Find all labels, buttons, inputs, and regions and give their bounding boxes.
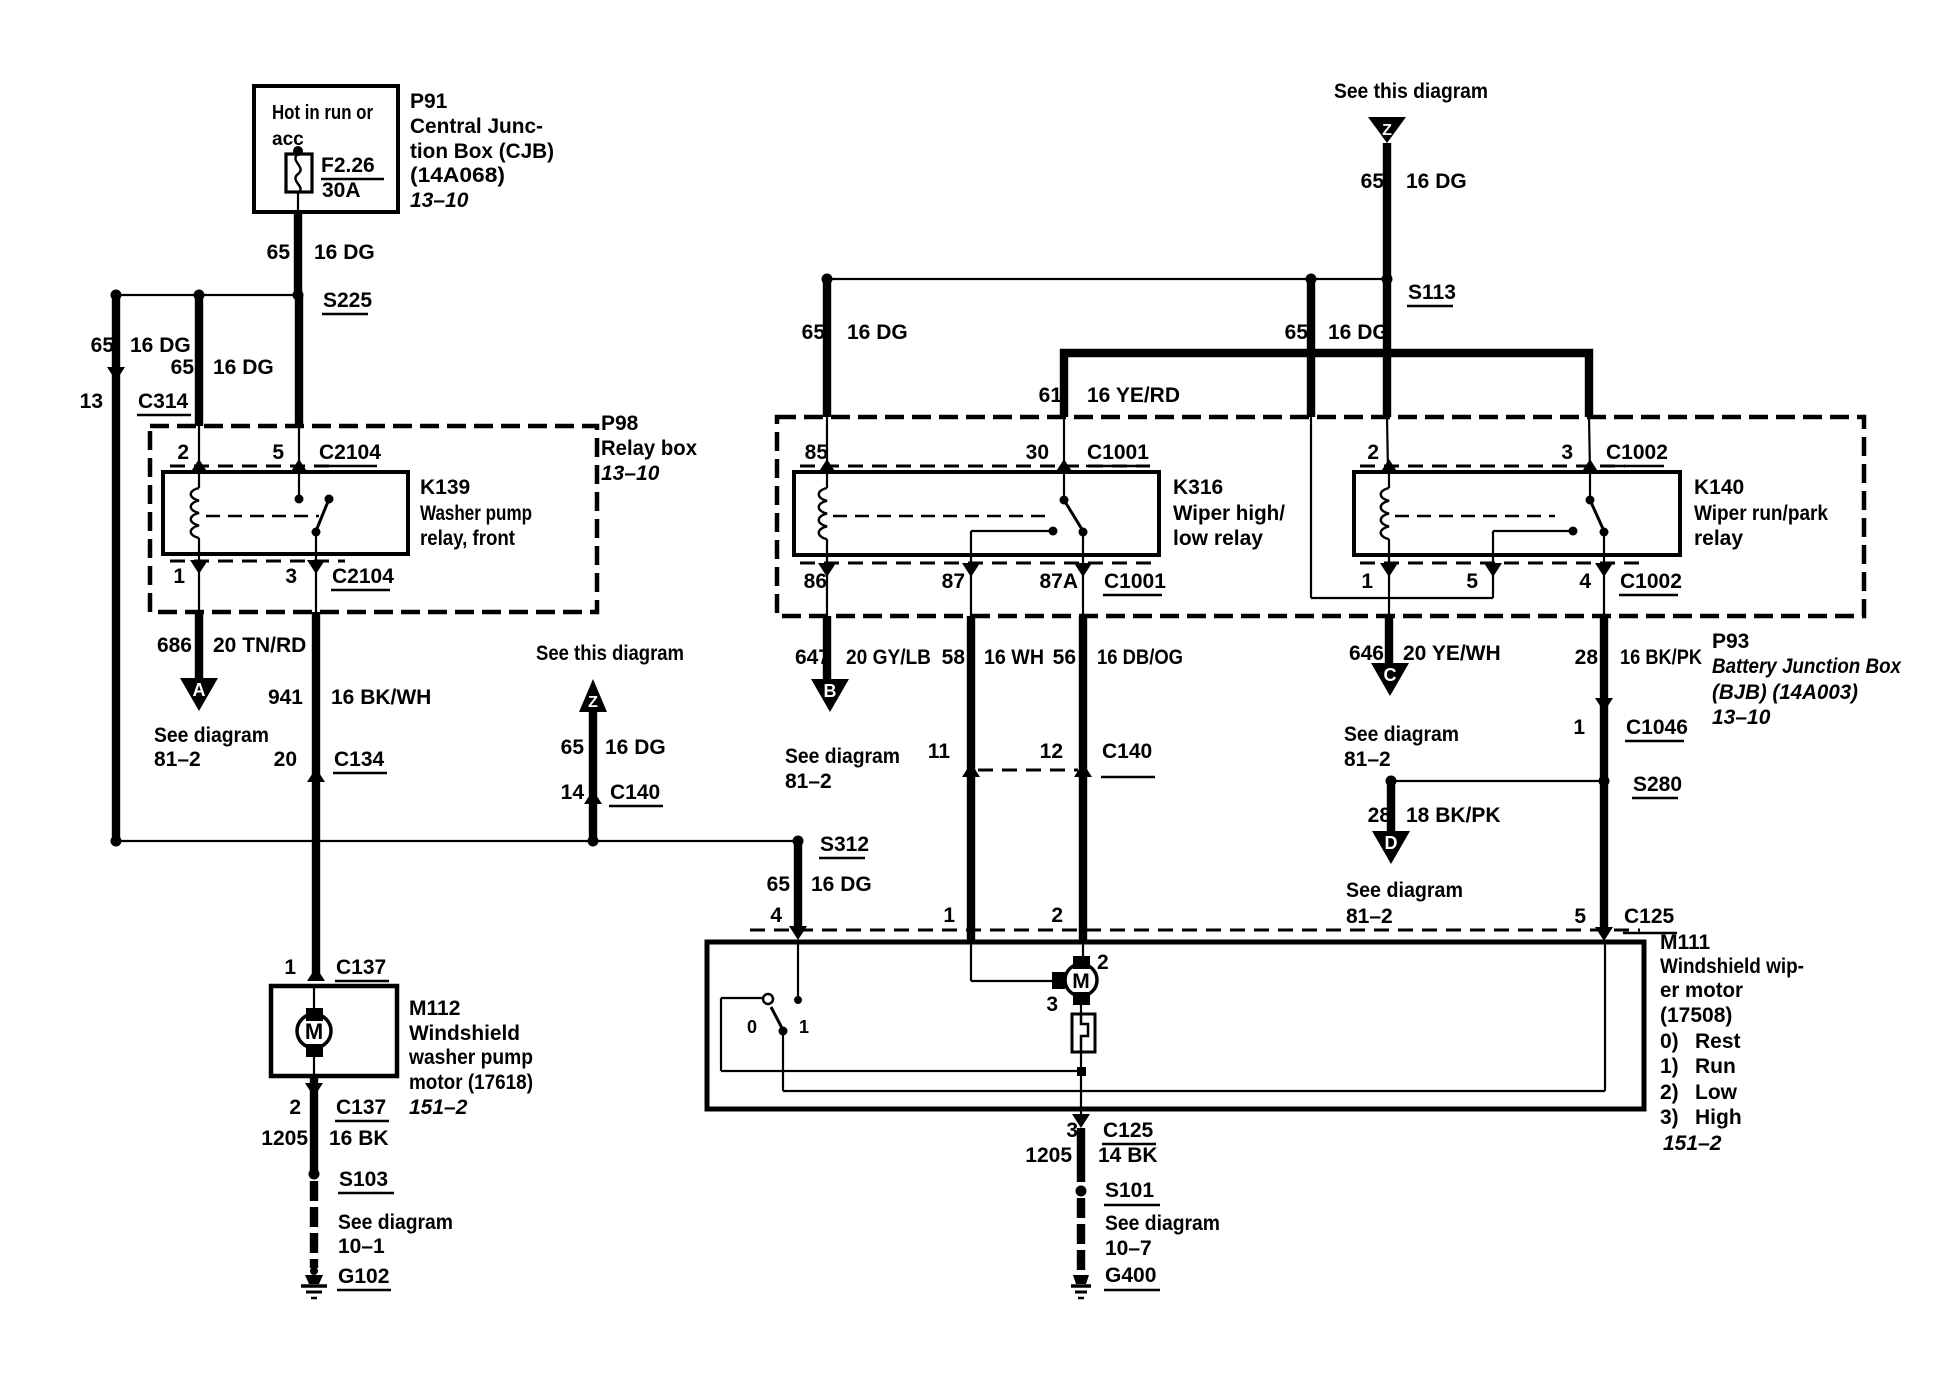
svg-text:28: 28 bbox=[1575, 646, 1599, 669]
svg-text:81–2: 81–2 bbox=[1344, 748, 1391, 771]
svg-text:647: 647 bbox=[795, 646, 830, 669]
svg-text:81–2: 81–2 bbox=[1346, 905, 1393, 928]
svg-text:1: 1 bbox=[943, 904, 955, 927]
svg-text:65: 65 bbox=[802, 321, 826, 344]
svg-text:1: 1 bbox=[284, 956, 296, 979]
wire pin4 inside M111 bbox=[794, 944, 802, 1004]
svg-text:85: 85 bbox=[805, 441, 829, 464]
wire run feed (line B) bbox=[783, 944, 1605, 1091]
park switch arm bbox=[771, 1007, 788, 1036]
svg-text:See this diagram: See this diagram bbox=[1334, 80, 1488, 103]
off-page arrow B bbox=[811, 679, 849, 712]
svg-text:relay: relay bbox=[1694, 527, 1743, 550]
label See diagram 81-2 (B) bbox=[785, 745, 900, 793]
svg-text:2: 2 bbox=[1097, 951, 1109, 974]
node S312 bbox=[793, 833, 870, 858]
svg-text:10–1: 10–1 bbox=[338, 1235, 385, 1258]
svg-text:16 DG: 16 DG bbox=[130, 334, 191, 357]
svg-text:16 WH: 16 WH bbox=[984, 646, 1044, 669]
relay K140 switch arm bbox=[1590, 500, 1609, 555]
svg-text:S225: S225 bbox=[323, 289, 372, 312]
relay K316 coil bbox=[819, 472, 827, 555]
label 13 C314 bbox=[80, 390, 191, 415]
svg-text:S312: S312 bbox=[820, 833, 869, 856]
relay K139 internal dashed link bbox=[206, 515, 319, 518]
svg-text:13: 13 bbox=[80, 390, 103, 413]
svg-text:A: A bbox=[193, 680, 206, 700]
pin 4 arrow C1002 bbox=[1595, 563, 1613, 577]
label 3 C125 bottom bbox=[1066, 1119, 1156, 1144]
svg-text:65: 65 bbox=[171, 356, 195, 379]
wire 65 16 DG fuse to S225 bbox=[294, 212, 302, 295]
wire pin4 inside P93 bbox=[1603, 555, 1605, 616]
label 2 C137 bottom bbox=[289, 1096, 389, 1121]
label 2 3 C1002 bbox=[1367, 441, 1668, 466]
label 65 16 DG (fuse wire) bbox=[267, 241, 375, 264]
wire motor to pin3 bbox=[1080, 1052, 1082, 1109]
svg-text:16 DB/OG: 16 DB/OG bbox=[1097, 646, 1183, 669]
node S280 bbox=[1386, 773, 1683, 798]
svg-text:M: M bbox=[1072, 970, 1090, 993]
wire 16 DG S225 to K139 pin5 bbox=[295, 295, 303, 472]
fuse F2.26 30A bbox=[286, 146, 312, 212]
off-page arrow D bbox=[1372, 831, 1410, 864]
label 85 30 C1001 bbox=[805, 441, 1150, 466]
ground G400 bbox=[1071, 1264, 1160, 1298]
off-page arrow Z down bbox=[1368, 117, 1406, 143]
label 1 C1046 bbox=[1573, 716, 1688, 741]
node S103 bbox=[309, 1168, 395, 1193]
svg-text:S113: S113 bbox=[1408, 281, 1456, 304]
svg-text:81–2: 81–2 bbox=[785, 770, 832, 793]
connector C1002 bottom dashed line bbox=[1360, 562, 1640, 565]
svg-text:Windshield wip-: Windshield wip- bbox=[1660, 955, 1804, 978]
junction dot left bbox=[111, 290, 122, 301]
relay K140 coil bbox=[1381, 472, 1389, 555]
svg-text:Battery Junction Box: Battery Junction Box bbox=[1712, 655, 1902, 678]
wire 646 20 YE/WH bbox=[1385, 616, 1393, 663]
junction dot mid bbox=[194, 290, 205, 301]
label 1 C137 top bbox=[284, 956, 389, 981]
label 20 C134 bbox=[274, 748, 387, 773]
label K139 block bbox=[420, 476, 532, 550]
label 11 12 C140 bbox=[928, 740, 1155, 777]
svg-text:Central Junc-: Central Junc- bbox=[410, 115, 543, 138]
wire pin3 inside P98 bbox=[315, 554, 317, 612]
off-page arrow Z up bbox=[579, 679, 607, 712]
connector C137 pin2 arrow bbox=[305, 1083, 323, 1097]
svg-text:646: 646 bbox=[1349, 642, 1384, 665]
relay K140 internal dashed link bbox=[1395, 515, 1555, 518]
svg-text:3: 3 bbox=[1066, 1119, 1078, 1142]
svg-text:S103: S103 bbox=[339, 1168, 388, 1191]
svg-text:C: C bbox=[1384, 665, 1397, 685]
svg-text:4: 4 bbox=[1579, 570, 1591, 593]
wire pin1 inside P98 bbox=[198, 554, 200, 612]
svg-text:28: 28 bbox=[1368, 804, 1392, 827]
wire pin1 inside P93 bbox=[1388, 555, 1390, 616]
label 56 16 DB/OG bbox=[1053, 646, 1183, 669]
svg-text:See diagram: See diagram bbox=[1344, 723, 1459, 746]
relay K139 coil bbox=[191, 472, 199, 554]
svg-text:C125: C125 bbox=[1103, 1119, 1154, 1142]
svg-text:C1001: C1001 bbox=[1087, 441, 1149, 464]
svg-text:Washer pump: Washer pump bbox=[420, 502, 532, 525]
svg-text:Relay box: Relay box bbox=[601, 437, 697, 460]
wire bus to S312 bbox=[116, 840, 798, 842]
svg-text:Z: Z bbox=[588, 694, 598, 711]
label P91 block bbox=[410, 90, 554, 212]
label 65 16 DG (left) bbox=[91, 334, 191, 357]
connector C125 dashed line bbox=[750, 929, 1640, 932]
svg-text:Run: Run bbox=[1695, 1055, 1736, 1078]
svg-text:1: 1 bbox=[1361, 570, 1373, 593]
junction square bbox=[1077, 1067, 1086, 1076]
connector C125 pin3 arrow bbox=[1072, 1109, 1090, 1128]
wire 65 16 DG left branch bbox=[112, 295, 120, 841]
wire 1205 16 BK bbox=[310, 1076, 318, 1174]
label 65 16 DG (loop wire) bbox=[1285, 321, 1389, 344]
wire splice bus S225 bbox=[116, 294, 298, 296]
relay K316 contact 87 bbox=[971, 527, 1058, 556]
svg-text:16 BK: 16 BK bbox=[329, 1127, 389, 1150]
pin 85 arrow bbox=[818, 459, 836, 473]
svg-text:C2104: C2104 bbox=[319, 441, 381, 464]
wire splice bus S113 bbox=[827, 278, 1387, 280]
svg-text:C1001: C1001 bbox=[1104, 570, 1166, 593]
svg-text:65: 65 bbox=[267, 241, 291, 264]
svg-text:C1002: C1002 bbox=[1620, 570, 1682, 593]
svg-text:65: 65 bbox=[1361, 170, 1385, 193]
svg-text:C2104: C2104 bbox=[332, 565, 394, 588]
pin 11 arrow C140 bbox=[962, 763, 980, 777]
svg-text:2: 2 bbox=[1367, 441, 1379, 464]
motor M111 symbol bbox=[1052, 956, 1097, 1005]
label See diagram 10-7 bbox=[1105, 1212, 1220, 1260]
svg-text:G102: G102 bbox=[338, 1265, 389, 1288]
svg-text:13–10: 13–10 bbox=[601, 462, 660, 485]
wire 65 16 DG from Z top bbox=[1387, 143, 1388, 472]
connector C314 arrow bbox=[107, 367, 125, 381]
label M112 block bbox=[408, 997, 533, 1119]
svg-text:C140: C140 bbox=[1102, 740, 1152, 763]
label 14 C140 bbox=[561, 781, 663, 806]
svg-text:(14A068): (14A068) bbox=[410, 164, 505, 187]
pin 12 arrow C140 bbox=[1074, 763, 1092, 777]
svg-text:(17508): (17508) bbox=[1660, 1004, 1732, 1027]
svg-text:1205: 1205 bbox=[261, 1127, 308, 1150]
svg-text:er motor: er motor bbox=[1660, 979, 1743, 1002]
svg-text:P98: P98 bbox=[601, 412, 639, 435]
junction dot left end bbox=[111, 836, 122, 847]
pin 5 arrow C2104 bbox=[290, 459, 308, 473]
svg-text:M111: M111 bbox=[1660, 931, 1711, 954]
connector C1001 bottom dashed line bbox=[800, 562, 1160, 565]
svg-text:C140: C140 bbox=[610, 781, 660, 804]
svg-text:(BJB) (14A003): (BJB) (14A003) bbox=[1712, 681, 1858, 704]
component box M112 bbox=[271, 986, 397, 1076]
label 61 16 YE/RD bbox=[1039, 384, 1180, 407]
svg-text:14 BK: 14 BK bbox=[1098, 1144, 1158, 1167]
wire 647 20 GY/LB bbox=[823, 616, 831, 679]
svg-text:0: 0 bbox=[747, 1017, 757, 1037]
label See diagram 81-2 (C) bbox=[1344, 723, 1459, 771]
wire 65 16 DG run/park loop bbox=[1311, 279, 1493, 598]
wire 65 16 DG from Z bbox=[589, 712, 597, 841]
wire 87 inside P93 bbox=[970, 555, 972, 616]
node S101 bbox=[1076, 1179, 1161, 1205]
svg-text:F2.26: F2.26 bbox=[321, 154, 375, 177]
svg-text:M: M bbox=[305, 1019, 323, 1044]
svg-text:G400: G400 bbox=[1105, 1264, 1156, 1287]
svg-text:20 GY/LB: 20 GY/LB bbox=[846, 646, 931, 669]
svg-text:Z: Z bbox=[1382, 122, 1392, 139]
label 65 16 DG (K139 branch) bbox=[171, 356, 274, 379]
label 65 16 DG (S312) bbox=[767, 873, 872, 896]
svg-text:87A: 87A bbox=[1039, 570, 1078, 593]
svg-text:Hot in run or: Hot in run or bbox=[272, 102, 373, 124]
label 1 5 4 C1002 bbox=[1361, 570, 1682, 595]
thermal protector bbox=[1072, 1005, 1095, 1052]
label pins 1 2 M111 bbox=[943, 904, 1063, 927]
svg-text:washer pump: washer pump bbox=[408, 1046, 533, 1069]
svg-text:16 DG: 16 DG bbox=[314, 241, 375, 264]
svg-text:3): 3) bbox=[1660, 1106, 1679, 1129]
svg-text:C125: C125 bbox=[1624, 905, 1675, 928]
relay K139 pin5 lead bbox=[295, 472, 304, 504]
svg-text:Windshield: Windshield bbox=[409, 1022, 520, 1045]
pin 2 arrow C1002 bbox=[1380, 459, 1398, 473]
svg-text:151–2: 151–2 bbox=[409, 1096, 468, 1119]
wire 87A inside P93 bbox=[1082, 555, 1084, 616]
svg-text:11: 11 bbox=[928, 740, 951, 763]
svg-text:14: 14 bbox=[561, 781, 585, 804]
label P93 block bbox=[1712, 630, 1902, 729]
connector C134 arrow bbox=[307, 768, 325, 782]
svg-text:Low: Low bbox=[1695, 1081, 1738, 1104]
wire 86 inside P93 bbox=[826, 555, 828, 616]
wire pin2 inside M111 bbox=[1082, 944, 1084, 957]
label motor pins 2 3 bbox=[1046, 951, 1108, 1016]
svg-text:1: 1 bbox=[1573, 716, 1585, 739]
svg-text:4: 4 bbox=[770, 904, 782, 927]
svg-text:See this diagram: See this diagram bbox=[536, 642, 684, 665]
svg-text:16 BK/WH: 16 BK/WH bbox=[331, 686, 431, 709]
connector C2104 top dashed line bbox=[170, 465, 330, 468]
label See diagram 81-2 (D) bbox=[1346, 879, 1463, 928]
svg-text:0): 0) bbox=[1660, 1030, 1679, 1053]
svg-text:motor (17618): motor (17618) bbox=[409, 1071, 533, 1094]
svg-text:3: 3 bbox=[1561, 441, 1573, 464]
wire pin1 inside M111 bbox=[971, 944, 1054, 981]
svg-text:16 DG: 16 DG bbox=[811, 873, 872, 896]
ground G102 bbox=[301, 1265, 391, 1298]
svg-text:65: 65 bbox=[91, 334, 115, 357]
component box P93 (dashed) bbox=[777, 417, 1864, 616]
relay K140 pin3 lead bbox=[1586, 472, 1595, 505]
node S113 bbox=[1382, 274, 1456, 307]
svg-text:2): 2) bbox=[1660, 1081, 1679, 1104]
label 86 87 87A C1001 bbox=[804, 570, 1167, 595]
svg-text:See diagram: See diagram bbox=[154, 724, 269, 747]
svg-text:13–10: 13–10 bbox=[1712, 706, 1771, 729]
svg-text:Wiper run/park: Wiper run/park bbox=[1694, 502, 1828, 525]
relay K140 body bbox=[1354, 472, 1680, 555]
off-page arrow C bbox=[1371, 663, 1409, 696]
label M111 block bbox=[1660, 931, 1804, 1155]
svg-text:56: 56 bbox=[1053, 646, 1076, 669]
svg-text:1): 1) bbox=[1660, 1055, 1679, 1078]
wire 56 16 DB/OG bbox=[1079, 616, 1087, 943]
svg-text:10–7: 10–7 bbox=[1105, 1237, 1152, 1260]
svg-text:C134: C134 bbox=[334, 748, 385, 771]
pin 3 arrow C1002 bbox=[1581, 459, 1599, 473]
svg-text:3: 3 bbox=[1046, 993, 1058, 1016]
svg-text:20: 20 bbox=[274, 748, 297, 771]
svg-text:low relay: low relay bbox=[1173, 527, 1263, 550]
svg-text:61: 61 bbox=[1039, 384, 1063, 407]
relay K140 contact 5 bbox=[1493, 527, 1578, 556]
label 1205 14 BK bbox=[1025, 1144, 1157, 1167]
wire 28 16 BK/PK bbox=[1600, 616, 1608, 927]
svg-text:686: 686 bbox=[157, 634, 192, 657]
label 0 1 switch bbox=[747, 1017, 809, 1037]
connector C140 dashed line bbox=[978, 769, 1078, 772]
wire 65 16 DG to K316 pin85 bbox=[823, 279, 831, 472]
label 647 20 GY/LB bbox=[795, 646, 931, 669]
svg-text:C1046: C1046 bbox=[1626, 716, 1688, 739]
label 4 C125 pin bbox=[770, 904, 782, 927]
component box M111 bbox=[707, 942, 1644, 1109]
svg-text:High: High bbox=[1695, 1106, 1742, 1129]
relay K316 body bbox=[794, 472, 1159, 555]
node S225 bbox=[293, 289, 373, 314]
svg-text:58: 58 bbox=[942, 646, 966, 669]
pin 86 arrow bbox=[818, 563, 836, 577]
label 28 16 BK/PK bbox=[1575, 646, 1702, 669]
svg-text:16 DG: 16 DG bbox=[847, 321, 908, 344]
svg-text:3: 3 bbox=[285, 565, 297, 588]
svg-text:B: B bbox=[824, 681, 837, 701]
svg-text:16 YE/RD: 16 YE/RD bbox=[1087, 384, 1180, 407]
wire 65 16 DG to relay K139 bbox=[195, 295, 203, 472]
label K140 block bbox=[1694, 476, 1828, 550]
svg-text:tion Box (CJB): tion Box (CJB) bbox=[410, 140, 554, 163]
svg-text:18 BK/PK: 18 BK/PK bbox=[1406, 804, 1501, 827]
svg-text:65: 65 bbox=[1285, 321, 1309, 344]
label See diagram 10-1 bbox=[338, 1211, 453, 1258]
svg-text:See diagram: See diagram bbox=[1346, 879, 1463, 902]
label See this diagram (top) bbox=[1334, 80, 1488, 103]
junction dot S113 mid bbox=[1306, 274, 1317, 285]
junction dot S113 left bbox=[822, 274, 833, 285]
relay K316 internal dashed link bbox=[833, 515, 1046, 518]
pin 87A arrow bbox=[1074, 563, 1092, 577]
off-page arrow A bbox=[180, 678, 218, 711]
wire rest feed (line A) bbox=[721, 1070, 1077, 1072]
connector C1046 arrow bbox=[1595, 698, 1613, 712]
svg-text:M112: M112 bbox=[409, 997, 460, 1020]
label 65 16 DG (Z top) bbox=[1361, 170, 1467, 193]
text Hot in run or acc bbox=[272, 102, 373, 150]
svg-text:151–2: 151–2 bbox=[1663, 1132, 1722, 1155]
wire dashed to G400 bbox=[1077, 1198, 1085, 1272]
svg-text:2: 2 bbox=[1051, 904, 1063, 927]
svg-text:20 TN/RD: 20 TN/RD bbox=[213, 634, 306, 657]
label K316 block bbox=[1173, 476, 1285, 550]
label See this diagram (center) bbox=[536, 642, 684, 665]
svg-text:Rest: Rest bbox=[1695, 1030, 1741, 1053]
svg-text:5: 5 bbox=[1466, 570, 1478, 593]
svg-text:16 DG: 16 DG bbox=[1406, 170, 1467, 193]
svg-text:16 DG: 16 DG bbox=[213, 356, 274, 379]
svg-text:16 BK/PK: 16 BK/PK bbox=[1620, 646, 1702, 669]
relay K139 body bbox=[163, 472, 408, 554]
label 686 20 TN/RD bbox=[157, 634, 306, 657]
connector C140 pin14 arrow bbox=[584, 790, 602, 804]
wire 65 16 DG S312 down bbox=[794, 841, 802, 927]
wire 1205 14 BK bbox=[1077, 1128, 1085, 1182]
pin 87 arrow bbox=[962, 563, 980, 577]
svg-text:941: 941 bbox=[268, 686, 303, 709]
junction dot Z wire bbox=[588, 836, 599, 847]
svg-text:relay, front: relay, front bbox=[420, 527, 515, 550]
wire 61 16 YE/RD bbox=[1064, 353, 1590, 472]
wire 686 20 TN/RD bbox=[195, 612, 203, 678]
connector C1002 top dashed line bbox=[1360, 465, 1625, 468]
svg-text:2: 2 bbox=[289, 1096, 301, 1119]
svg-text:86: 86 bbox=[804, 570, 827, 593]
svg-text:16 DG: 16 DG bbox=[1328, 321, 1389, 344]
pin 1 arrow C1002 bbox=[1380, 563, 1398, 577]
label 1205 16 BK bbox=[261, 1127, 388, 1150]
svg-text:See diagram: See diagram bbox=[338, 1211, 453, 1234]
wire 58 16 WH bbox=[967, 616, 975, 943]
relay K316 pin30 lead bbox=[1060, 472, 1069, 505]
label 646 20 YE/WH bbox=[1349, 642, 1501, 665]
wire 28 18 BK/PK to D bbox=[1387, 781, 1395, 831]
label 2 5 C2104 top bbox=[177, 441, 381, 466]
label 58 16 WH bbox=[942, 646, 1044, 669]
svg-text:13–10: 13–10 bbox=[410, 189, 469, 212]
svg-text:2: 2 bbox=[177, 441, 189, 464]
svg-text:S101: S101 bbox=[1105, 1179, 1154, 1202]
label 1 3 C2104 bottom bbox=[173, 565, 394, 590]
label P98 block bbox=[601, 412, 697, 485]
pin 1 arrow C2104 bbox=[190, 560, 208, 574]
svg-text:C137: C137 bbox=[336, 1096, 386, 1119]
svg-text:See diagram: See diagram bbox=[1105, 1212, 1220, 1235]
label See diagram 81-2 (A) bbox=[154, 724, 269, 771]
svg-text:1: 1 bbox=[173, 565, 185, 588]
svg-text:P91: P91 bbox=[410, 90, 448, 113]
svg-text:D: D bbox=[1385, 833, 1398, 853]
svg-text:K139: K139 bbox=[420, 476, 470, 499]
svg-text:30: 30 bbox=[1026, 441, 1049, 464]
wire dashed to G102 bbox=[310, 1181, 318, 1268]
pin 5 arrow C1002 bbox=[1484, 563, 1502, 577]
svg-text:S280: S280 bbox=[1633, 773, 1682, 796]
wire 941 16 BK/WH bbox=[312, 612, 320, 976]
label 65 16 DG (pin85 wire) bbox=[802, 321, 908, 344]
svg-text:16 DG: 16 DG bbox=[605, 736, 666, 759]
pin 2 arrow C2104 bbox=[190, 459, 208, 473]
label F2.26 / 30A bbox=[321, 154, 384, 202]
label 941 16 BK/WH bbox=[268, 686, 431, 709]
motor M112 symbol bbox=[297, 986, 331, 1076]
component box P91 Central Junction Box bbox=[254, 86, 398, 212]
svg-text:5: 5 bbox=[1574, 905, 1586, 928]
